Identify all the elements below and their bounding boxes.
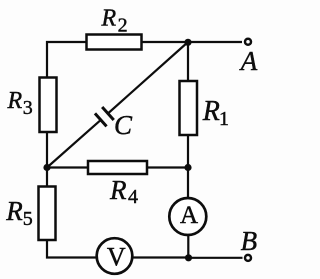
svg-text:B: B — [241, 226, 258, 256]
wire R2 to node N1 — [142, 41, 189, 43]
terminal A — [245, 39, 251, 45]
wire diagonal lower segment capacitor to N3 — [47, 120, 101, 168]
wire node N4 to terminal B — [189, 257, 243, 259]
resistor R2 — [87, 35, 142, 50]
svg-text:R: R — [101, 5, 117, 31]
wire node N2 to ammeter — [187, 168, 189, 199]
node N2 junction — [184, 164, 191, 171]
resistor R5 — [39, 187, 56, 241]
svg-text:2: 2 — [118, 14, 128, 36]
svg-text:5: 5 — [23, 208, 33, 230]
svg-text:1: 1 — [219, 108, 229, 130]
wire R4 to node N2 — [147, 166, 188, 168]
wire node N1 to R1 — [187, 42, 189, 81]
wire N3 to R4 — [47, 166, 88, 168]
node N1 junction — [184, 39, 191, 46]
capacitor C — [95, 107, 114, 126]
terminal B — [245, 255, 251, 261]
wire ammeter to node N4 — [187, 235, 189, 258]
svg-text:C: C — [114, 110, 133, 140]
svg-text:A: A — [180, 202, 198, 229]
svg-text:R: R — [7, 88, 23, 114]
wire N3 to R5 — [46, 168, 48, 187]
svg-text:A: A — [239, 46, 258, 76]
wire voltmeter to node N4 — [132, 256, 188, 258]
node N3 junction — [43, 164, 50, 171]
resistor R4 — [88, 161, 147, 174]
ammeter A — [169, 198, 206, 235]
wire R3 to node N3 — [46, 132, 48, 168]
wire R5 to bottom-left corner to voltmeter — [47, 240, 97, 258]
svg-text:4: 4 — [128, 186, 138, 208]
wire diagonal upper segment N1 to capacitor — [108, 42, 188, 114]
wire R1 to node N2 — [187, 135, 189, 168]
svg-text:R: R — [109, 175, 127, 205]
node N4 junction — [185, 254, 192, 261]
resistor R3 — [40, 78, 57, 133]
svg-text:R: R — [202, 96, 220, 127]
resistor R1 — [180, 81, 198, 135]
voltmeter V — [97, 238, 133, 274]
svg-text:V: V — [107, 243, 126, 272]
svg-text:R: R — [5, 196, 23, 226]
wire top-left corner from R2 to R3 — [47, 42, 87, 78]
svg-text:3: 3 — [23, 97, 33, 119]
wire node N1 to terminal A — [188, 41, 242, 43]
